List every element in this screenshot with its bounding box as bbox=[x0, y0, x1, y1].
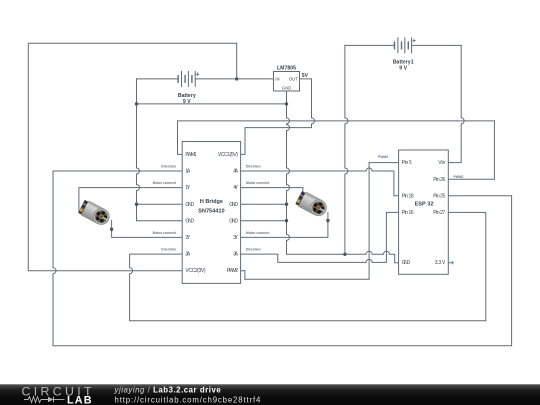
pin labels ESP right bbox=[433, 160, 446, 266]
svg-text:Motor connect: Motor connect bbox=[246, 231, 270, 235]
pin labels ESP left bbox=[402, 160, 414, 266]
wire: PWM1 to ESP Pin 26 bbox=[178, 121, 495, 179]
junction at battery positive / 9V net bbox=[235, 77, 238, 80]
footer title text bbox=[114, 386, 262, 405]
battery Battery1 9V symbol bbox=[395, 37, 416, 53]
wire: battery right lead to LM7805 IN bbox=[196, 78, 274, 80]
wire: 2A to ESP Pin 27 bbox=[130, 212, 486, 320]
svg-text:Pin 5: Pin 5 bbox=[402, 160, 412, 166]
svg-text:Vin: Vin bbox=[438, 160, 445, 166]
svg-text:3.3 V: 3.3 V bbox=[435, 260, 446, 266]
wire: GND1 right row bbox=[241, 203, 287, 205]
svg-text:1A: 1A bbox=[185, 169, 190, 175]
svg-text:yjiaying / Lab3.2.car drive: yjiaying / Lab3.2.car drive bbox=[114, 386, 222, 395]
svg-text:4A: 4A bbox=[233, 169, 238, 175]
wire: battery left lead bbox=[137, 78, 179, 80]
svg-text:PWM2: PWM2 bbox=[227, 268, 238, 274]
svg-text:Direction: Direction bbox=[161, 164, 176, 168]
wire: battery1 negative down to GND bus bbox=[345, 45, 348, 254]
wire: GND branch row to LM7805 GND vertical bbox=[137, 103, 287, 105]
wire: battery1 left lead bbox=[345, 44, 395, 46]
wire: PWM2 to ESP Pin 5 bbox=[241, 163, 399, 280]
svg-text:GND: GND bbox=[185, 218, 194, 224]
motor M1 bbox=[78, 199, 113, 228]
wire: battery1 right lead bbox=[412, 44, 461, 46]
junction at GND branch left bbox=[135, 102, 138, 105]
svg-text:GND: GND bbox=[229, 202, 238, 208]
svg-text:3A: 3A bbox=[233, 252, 238, 258]
battery Battery 9V symbol bbox=[178, 71, 199, 87]
svg-text:LM7805: LM7805 bbox=[277, 66, 296, 72]
wire: 4A to ESP Pin 18 bbox=[241, 168, 399, 196]
svg-text:Pin 27: Pin 27 bbox=[433, 210, 445, 216]
svg-text:Direction: Direction bbox=[246, 164, 261, 168]
svg-text:OUT: OUT bbox=[289, 77, 298, 82]
svg-text:SN754410: SN754410 bbox=[198, 208, 224, 214]
motor M2 bbox=[295, 190, 330, 219]
wire: LM7805 OUT 5V to VCC1(5V) bbox=[241, 79, 315, 154]
node motor M1 terminal 2 bbox=[110, 228, 113, 231]
svg-text:GND: GND bbox=[282, 85, 291, 90]
net labels left of H bridge bbox=[153, 164, 177, 251]
wire: 1Y to motor M1 terminal 1 bbox=[79, 188, 182, 212]
junction battery1 negative on GND bus bbox=[343, 253, 346, 256]
svg-text:GND: GND bbox=[185, 202, 194, 208]
net labels right of H bridge bbox=[246, 164, 270, 251]
wire: left GND vertical (battery- down to GND2 pin) bbox=[137, 79, 183, 221]
svg-text:ESP 32: ESP 32 bbox=[415, 201, 434, 207]
svg-text:PWM2: PWM2 bbox=[378, 155, 388, 159]
junction at GND pin row left bbox=[135, 203, 138, 206]
regulator U LM7805 bbox=[274, 66, 300, 92]
svg-text:2Y: 2Y bbox=[185, 235, 190, 241]
label Battery 9V bbox=[178, 93, 196, 105]
footer bar bbox=[0, 384, 540, 405]
junction at GND pin row right lower bbox=[285, 219, 288, 222]
label Battery1 9V bbox=[393, 60, 414, 72]
wire: LM7805 GND down, GND bus right to ESP GND bbox=[287, 91, 399, 263]
svg-text:VCC2(3V): VCC2(3V) bbox=[185, 268, 205, 274]
wire: 3Y to motor M2 terminal 2 bbox=[241, 213, 328, 238]
junction at GND pin row right upper bbox=[285, 203, 288, 206]
junction at LM7805 GND column bbox=[285, 102, 288, 105]
wire: battery1 positive to ESP Vin bbox=[448, 45, 464, 162]
svg-text:2A: 2A bbox=[185, 252, 190, 258]
wire: GND1 left row bbox=[137, 203, 183, 205]
wire: 1A to ESP Pin 25 bbox=[53, 171, 512, 346]
wire: GND2 right row bbox=[241, 220, 287, 222]
IC U1 H Bridge SN754410 bbox=[182, 142, 240, 284]
svg-text:PWM1: PWM1 bbox=[454, 175, 464, 179]
svg-text:Pin 18: Pin 18 bbox=[402, 193, 414, 199]
wire: 4Y to motor M2 terminal 1 bbox=[241, 188, 303, 195]
IC U2 ESP 32 bbox=[399, 150, 449, 274]
wire: 3A to ESP Pin 16 bbox=[241, 212, 399, 262]
svg-text:9 V: 9 V bbox=[399, 66, 407, 72]
svg-text:H Bridge: H Bridge bbox=[200, 199, 223, 205]
svg-text:PWM1: PWM1 bbox=[185, 152, 196, 158]
svg-text:LAB: LAB bbox=[67, 395, 93, 405]
svg-text:Pin 16: Pin 16 bbox=[402, 210, 414, 216]
svg-text:Motor connect: Motor connect bbox=[153, 181, 177, 185]
logo CircuitLab bbox=[22, 384, 95, 405]
svg-text:VCC1(5V): VCC1(5V) bbox=[218, 152, 238, 158]
node motor M2 terminal 2 bbox=[326, 219, 329, 222]
pin labels H Bridge right bbox=[218, 152, 239, 274]
svg-text:4Y: 4Y bbox=[233, 185, 238, 191]
svg-text:Direction: Direction bbox=[161, 247, 176, 251]
wire: battery+ top loop to VCC2(3V) bbox=[28, 43, 236, 270]
svg-text:Motor connect: Motor connect bbox=[246, 181, 270, 185]
svg-text:Motor connect: Motor connect bbox=[153, 231, 177, 235]
svg-text:9 V: 9 V bbox=[183, 99, 191, 105]
svg-text:5V: 5V bbox=[302, 73, 309, 79]
wire: 2Y to motor M1 terminal 2 bbox=[112, 221, 183, 238]
svg-text:http://circuitlab.com/ch9cbe28: http://circuitlab.com/ch9cbe28ttrf4 bbox=[115, 395, 262, 404]
pin labels H Bridge left bbox=[185, 152, 205, 274]
svg-text:Pin 26: Pin 26 bbox=[433, 177, 445, 183]
svg-text:1Y: 1Y bbox=[185, 185, 190, 191]
wire: ESP 3.3V stub bbox=[448, 262, 453, 264]
svg-text:GND: GND bbox=[229, 218, 238, 224]
svg-text:Pin 25: Pin 25 bbox=[433, 193, 445, 199]
svg-text:Direction: Direction bbox=[246, 247, 261, 251]
svg-text:3Y: 3Y bbox=[233, 235, 238, 241]
svg-text:GND: GND bbox=[402, 260, 411, 266]
